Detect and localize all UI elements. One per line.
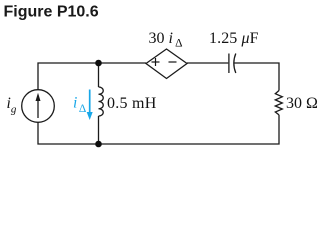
wire diamond right tip to capacitor left plate [187, 62, 228, 64]
inductor L coil 0.5 mH [99, 87, 104, 116]
current arrow iΔ cyan pointing down [87, 90, 93, 121]
svg-text:iΔ: iΔ [73, 95, 86, 116]
resistor R zigzag 30 ohm [275, 91, 282, 115]
svg-text:ig: ig [7, 95, 17, 116]
current source ig circle with up arrow [22, 90, 55, 123]
wire top-left from current source to diamond left tip [38, 63, 146, 90]
minus sign inside diamond [169, 61, 177, 63]
svg-text:30 Ω: 30 Ω [286, 95, 318, 112]
svg-text:0.5 mH: 0.5 mH [107, 95, 157, 112]
wire capacitor to top-right corner down to resistor top [234, 63, 279, 91]
svg-text:30 iΔ: 30 iΔ [149, 30, 183, 50]
plus sign inside diamond [152, 58, 160, 66]
svg-text:Figure P10.6: Figure P10.6 [4, 4, 99, 21]
dependent source diamond 30 iΔ [146, 49, 187, 79]
node junction dot top of inductor branch [95, 60, 102, 67]
svg-text:1.25 μF: 1.25 μF [209, 30, 259, 47]
capacitor C plates [229, 54, 236, 74]
wire resistor bottom to bottom-right corner along bottom to current source [38, 115, 279, 144]
wire inductor branch top [98, 63, 100, 87]
node junction dot bottom of inductor branch [95, 141, 102, 148]
wire inductor branch bottom [98, 116, 100, 144]
